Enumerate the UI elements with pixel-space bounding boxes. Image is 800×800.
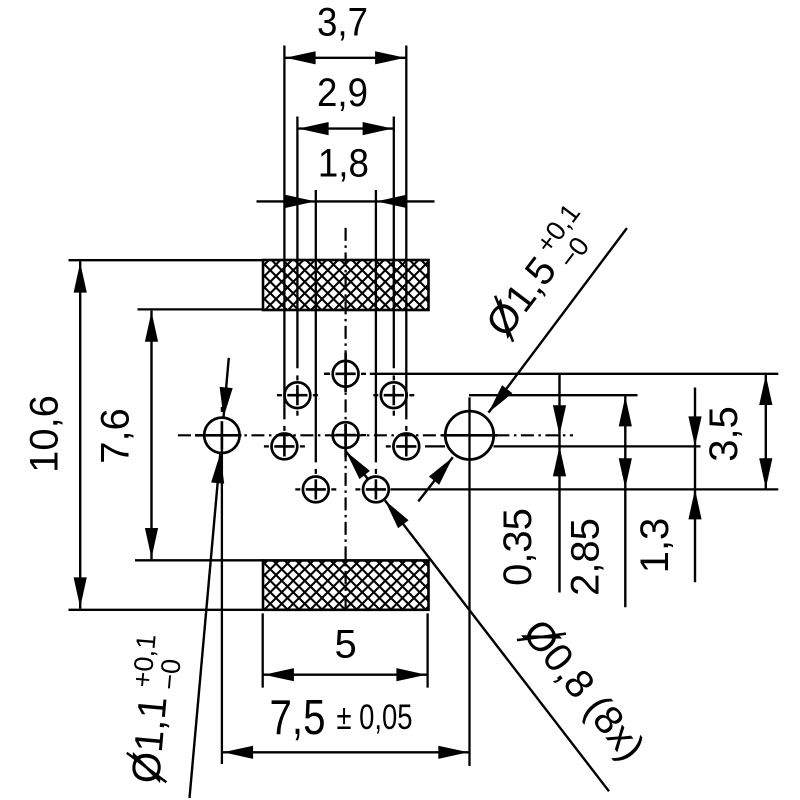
label Ø0,8 (8x) xyxy=(514,611,653,768)
leader line Ø0,8 main xyxy=(385,501,609,792)
extension line hatch left (x=262.7) xyxy=(262,613,264,687)
hole mid-right (406.3,446.4) xyxy=(386,434,419,460)
extension line upper-left hole (x=297.4) xyxy=(296,117,298,381)
extension line right big hole (x=469.5) xyxy=(468,397,470,766)
svg-text:7,5± 0,05: 7,5± 0,05 xyxy=(270,691,413,745)
vertical center line xyxy=(345,228,347,610)
extension line hatch right (x=427.6) xyxy=(426,613,428,687)
extension line lower row (y=489.4) xyxy=(391,488,779,490)
hatched insulator block top xyxy=(263,260,429,310)
dimension 3,5 xyxy=(702,374,772,490)
dimension 3,7 xyxy=(284,1,406,65)
svg-text:3,5: 3,5 xyxy=(702,406,746,462)
leader line Ø1,1 lower xyxy=(190,453,225,798)
extension line mid-right hole (x=406.3) xyxy=(405,46,407,431)
dimension 5 xyxy=(263,622,428,681)
svg-text:2,9: 2,9 xyxy=(317,71,368,115)
dimension 10,6 xyxy=(23,261,87,608)
leader line Ø1,1 upper xyxy=(220,358,233,418)
horizontal center line xyxy=(178,434,573,436)
svg-text:0,35: 0,35 xyxy=(496,508,540,586)
svg-text:2,85: 2,85 xyxy=(564,518,608,596)
dimension 2,9 xyxy=(297,71,393,135)
svg-text:10,6: 10,6 xyxy=(23,395,67,473)
svg-text:5: 5 xyxy=(334,622,356,666)
label Ø1,5 +0,1/-0 xyxy=(473,198,608,350)
svg-text:1,8: 1,8 xyxy=(318,141,369,185)
extension line top hole row (y=373.8) xyxy=(324,373,778,375)
label Ø1,1 +0,1/-0 xyxy=(119,633,189,786)
dimension 7,6 xyxy=(93,311,158,560)
dimension 1,8 (outside arrows) xyxy=(257,141,435,208)
dimension 1,3 (outside arrows) xyxy=(633,388,702,583)
leader line Ø1,5 upper xyxy=(489,228,627,413)
extension line mid-left hole (x=284.4) xyxy=(283,46,285,431)
svg-text:1,3: 1,3 xyxy=(633,518,677,574)
extension line lower-left hole (x=315.8) xyxy=(315,190,317,474)
extension line mid row (y=446.4) xyxy=(425,445,701,447)
hole upper-right (393.8,395.2) xyxy=(373,382,414,415)
extension line top edge (y=260.2) xyxy=(69,259,264,261)
svg-text:7,6: 7,6 xyxy=(93,408,137,464)
extension line lower-right hole (x=375.9) xyxy=(375,190,377,474)
hole mid-left (284.4,446.4) xyxy=(264,434,305,460)
hole upper-left (297.4,395.2) xyxy=(277,382,318,415)
leader line Ø0,8 second arrow xyxy=(346,452,370,480)
extension line upper row (y=395.2) xyxy=(469,394,638,396)
extension line bottom edge (y=609.8) xyxy=(69,609,264,611)
hatched insulator block bottom xyxy=(263,560,429,609)
leader line Ø1,5 lower xyxy=(418,457,453,501)
extension line hatch-top bottom (y=309.4) xyxy=(138,308,264,310)
dimension 0,35 (outside arrows) xyxy=(496,375,566,593)
extension line upper-right hole (x=393.8) xyxy=(393,117,395,381)
dimension 2,85 xyxy=(564,396,632,607)
svg-text:3,7: 3,7 xyxy=(317,1,368,45)
hole lower-right (375.9,489.4) xyxy=(355,477,388,503)
dimension 7,5 +/-0,05 xyxy=(222,691,470,759)
extension line hatch-bottom top (y=560.3) xyxy=(135,559,263,561)
hole right big Ø1,5 (469.5,435.3) xyxy=(442,411,497,459)
hole center (345.6,435.1) xyxy=(333,422,366,448)
extension line left big hole (x=221.9) xyxy=(221,407,223,764)
hole lower-left (315.8,489.4) xyxy=(295,477,336,503)
hole left big Ø1,1 (221.9,435.3) xyxy=(195,418,242,453)
hole top (345.6,373.8) xyxy=(325,361,358,387)
